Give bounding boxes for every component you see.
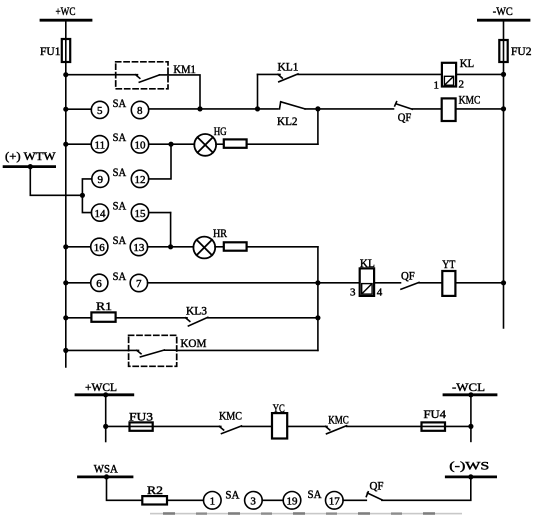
- resistor R1: [91, 312, 115, 321]
- wire KL1 branch riser: [257, 74, 259, 109]
- fuse FU2: [499, 40, 507, 62]
- svg-text:-WCL: -WCL: [452, 380, 485, 394]
- wire QF to KMC coil: [412, 108, 441, 110]
- label SA bottom 1: [225, 488, 239, 502]
- junction dot KM1 drop on row A: [197, 106, 202, 111]
- wire row B to SA contact 11: [66, 143, 91, 145]
- wire KM1 output to row A: [168, 75, 200, 109]
- label KMC: [459, 93, 481, 107]
- svg-text:4: 4: [377, 286, 383, 298]
- node WTW terminal bar: [4, 165, 55, 168]
- junction dot row A on right bus: [501, 106, 506, 111]
- label KMC aux 2: [328, 413, 349, 427]
- fuse FU1: [62, 39, 70, 62]
- SA terminal circle 13: [130, 238, 147, 255]
- wire row A middle: [149, 108, 278, 110]
- label R2: [147, 483, 163, 497]
- svg-text:9: 9: [98, 174, 104, 186]
- SA terminal circle 16: [91, 238, 108, 255]
- wire row F to SA contact 6: [66, 282, 91, 284]
- wire right bus vertical: [503, 20, 505, 328]
- contactor KM1 dashed box: [116, 62, 168, 89]
- svg-text:11: 11: [95, 139, 106, 151]
- svg-text:5: 5: [97, 105, 103, 117]
- wire YT to right bus: [455, 282, 503, 284]
- SA terminal circle 7: [130, 274, 147, 291]
- wire YC row to FU3: [106, 425, 130, 427]
- svg-text:8: 8: [137, 105, 143, 117]
- svg-text:+WC: +WC: [56, 4, 76, 18]
- label R1: [96, 299, 112, 313]
- node +WCL terminal bar: [76, 393, 133, 396]
- junction dot WTW feed on link C-D: [80, 193, 85, 198]
- svg-text:KL3: KL3: [186, 304, 207, 318]
- label KOM: [180, 336, 206, 350]
- label SA row C: [113, 165, 127, 179]
- junction dot riser on row F: [315, 280, 320, 285]
- wire FU4 to -WCL drop: [445, 425, 471, 427]
- wire R1 to KL3: [116, 317, 187, 319]
- wire link row C to row D: [82, 179, 91, 213]
- label FU4: [424, 407, 447, 421]
- junction dot -WCL on YC row: [468, 424, 473, 429]
- SA terminal circle 8: [131, 101, 148, 118]
- contact KMC aux 1: [219, 426, 241, 434]
- contact KOM: [129, 350, 177, 357]
- svg-text:KL1: KL1: [278, 60, 299, 74]
- fuse FU3: [130, 422, 153, 430]
- label KL2: [277, 114, 298, 128]
- svg-text:KMC: KMC: [328, 413, 349, 427]
- SA terminal circle 10: [131, 136, 148, 153]
- contact KM1: [116, 75, 168, 83]
- SA terminal circle 9: [92, 170, 109, 187]
- junction dot HG branch on row A: [315, 106, 320, 111]
- junction dot WSA bar: [104, 474, 109, 479]
- wire KL2 to QF: [305, 108, 394, 110]
- wire left bus vertical: [65, 20, 67, 367]
- wire to KM1 box: [66, 74, 116, 76]
- label KL1: [278, 60, 299, 74]
- svg-text:WSA: WSA: [94, 461, 118, 475]
- wire KL3 to riser: [208, 317, 318, 319]
- node -WC label: [493, 4, 513, 18]
- wire link row B to row C: [149, 144, 171, 179]
- svg-text:2: 2: [459, 79, 465, 91]
- node -WC terminal bar: [478, 19, 529, 22]
- junction dot WTW bar: [28, 164, 33, 169]
- node (+) WTW label: [5, 149, 56, 163]
- wire circle 15 to link: [149, 212, 171, 214]
- junction dot +WCL bar: [103, 392, 108, 397]
- junction dot row E on left bus: [63, 244, 68, 249]
- svg-text:QF: QF: [401, 269, 415, 283]
- wire circle 3 to circle 19: [262, 499, 283, 501]
- SA terminal circle 17: [326, 492, 344, 510]
- wire KL1 to relay KL: [298, 73, 442, 75]
- svg-text:FU2: FU2: [511, 44, 532, 58]
- label SA bottom 2: [308, 487, 322, 501]
- junction dot WS bar: [468, 474, 473, 479]
- wire WTW feed: [30, 167, 82, 196]
- wire -WCL drop: [470, 395, 472, 442]
- svg-text:FU3: FU3: [129, 410, 153, 424]
- wire YC to KMC aux 2: [287, 425, 327, 427]
- svg-text:SA: SA: [113, 96, 127, 110]
- relay contact box KL (pins 3-4): [360, 268, 374, 296]
- wire row H to KOM box: [66, 349, 129, 351]
- node +WCL label: [85, 380, 117, 394]
- junction dot row F on right bus: [501, 280, 506, 285]
- label KMC aux 1: [219, 409, 242, 423]
- svg-text:YT: YT: [442, 257, 456, 271]
- svg-text:(+) WTW: (+) WTW: [5, 149, 56, 163]
- svg-text:(-)WS: (-)WS: [449, 459, 489, 473]
- svg-text:KL2: KL2: [277, 114, 298, 128]
- svg-text:YC: YC: [273, 401, 285, 415]
- junction dot -WCL bar: [468, 392, 473, 397]
- svg-text:16: 16: [94, 242, 106, 254]
- wire circle 10 to lamp HG: [149, 143, 195, 145]
- svg-text:R1: R1: [96, 299, 112, 313]
- wire KMC coil to right bus: [456, 108, 504, 110]
- junction dot +WCL on YC row: [103, 424, 108, 429]
- lamp HG: [194, 134, 216, 156]
- SA terminal circle 15: [131, 204, 148, 221]
- svg-text:19: 19: [287, 496, 299, 508]
- resistor row E: [224, 242, 247, 250]
- label KL3: [186, 304, 207, 318]
- svg-text:+WCL: +WCL: [85, 380, 117, 394]
- wire WSA drop to bottom row: [107, 477, 143, 500]
- svg-text:SA: SA: [113, 165, 127, 179]
- SA terminal circle 5: [91, 101, 108, 118]
- wire FU3 to KMC aux 1: [153, 425, 221, 427]
- label SA row B: [113, 130, 127, 144]
- wire KL to QF row F: [374, 282, 400, 284]
- junction dot row B link: [168, 142, 173, 147]
- node (-) WS label: [449, 459, 489, 473]
- junction dot KL row on right bus: [501, 72, 506, 77]
- SA terminal circle 3: [245, 492, 263, 510]
- pin 3: [350, 287, 356, 299]
- wire KMC aux 2 to FU4: [347, 425, 422, 427]
- contact QF row F: [401, 282, 419, 289]
- contact KL3: [186, 317, 208, 326]
- svg-text:6: 6: [96, 278, 102, 290]
- resistor R2: [142, 496, 167, 504]
- wire lamp HR to resistor: [215, 246, 224, 248]
- resistor row B: [224, 139, 247, 147]
- contact KL2: [280, 102, 306, 109]
- SA terminal circle 12: [131, 170, 148, 187]
- wire KL1 row left: [258, 73, 281, 75]
- svg-text:SA: SA: [113, 199, 127, 213]
- wire lamp HG to resistor: [216, 143, 224, 145]
- node WSA terminal bar: [79, 475, 133, 478]
- contactor coil KMC: [442, 98, 456, 121]
- svg-text:FU4: FU4: [424, 407, 447, 421]
- pin 1: [434, 79, 440, 91]
- contact KMC aux 2: [326, 426, 347, 434]
- junction dot row F on left bus: [63, 280, 68, 285]
- svg-text:3: 3: [250, 496, 256, 508]
- wire riser row B to row A: [317, 109, 319, 144]
- svg-text:FU1: FU1: [40, 44, 61, 58]
- node WSA label: [94, 461, 118, 475]
- svg-text:SA: SA: [113, 233, 127, 247]
- SA terminal circle 14: [91, 204, 108, 221]
- label YT: [442, 257, 456, 271]
- contact QF bottom: [366, 492, 382, 500]
- wire circle 13 to lamp HR: [148, 246, 194, 248]
- wire link row D to row E: [170, 213, 172, 247]
- label QF row A: [398, 110, 412, 124]
- wire row B to riser: [247, 143, 318, 145]
- svg-text:KMC: KMC: [219, 409, 242, 423]
- node +WC label: [56, 4, 76, 18]
- svg-text:14: 14: [95, 208, 107, 220]
- node -WCL terminal bar: [444, 393, 496, 396]
- svg-text:KL: KL: [360, 256, 375, 270]
- coil YC: [272, 413, 287, 438]
- wire KL coil to right bus: [456, 73, 503, 75]
- svg-text:10: 10: [135, 140, 147, 152]
- svg-text:SA: SA: [113, 269, 127, 283]
- svg-text:SA: SA: [308, 487, 322, 501]
- label SA row F: [113, 269, 127, 283]
- label KL: [460, 56, 475, 70]
- svg-text:QF: QF: [398, 110, 412, 124]
- junction dot row A on left bus: [63, 107, 68, 112]
- release coil YT: [442, 271, 455, 296]
- SA terminal circle 19: [283, 492, 301, 510]
- pin 4: [377, 286, 383, 298]
- svg-text:13: 13: [133, 242, 145, 254]
- caption fragment (cut-off text at bottom): [150, 512, 462, 515]
- label SA row E: [113, 233, 127, 247]
- wire R2 to SA contact 1: [167, 499, 203, 501]
- svg-text:-WC: -WC: [493, 4, 513, 18]
- svg-text:15: 15: [135, 208, 147, 220]
- svg-text:SA: SA: [113, 130, 127, 144]
- node WS terminal bar: [446, 475, 495, 478]
- label YC: [273, 401, 285, 415]
- wire row H to riser corner: [177, 349, 318, 351]
- svg-text:1: 1: [210, 496, 216, 508]
- junction dot row H on left bus: [63, 348, 68, 353]
- svg-text:KMC: KMC: [459, 93, 481, 107]
- label FU1: [40, 44, 61, 58]
- svg-text:SA: SA: [225, 488, 239, 502]
- svg-text:3: 3: [350, 287, 356, 299]
- pin 2: [459, 79, 465, 91]
- relay coil KL (pins 1-2): [442, 63, 456, 87]
- wire QF to YT: [419, 282, 442, 284]
- fuse FU4: [422, 422, 446, 430]
- wire row G to R1: [66, 317, 92, 319]
- svg-text:R2: R2: [147, 483, 163, 497]
- label FU2: [511, 44, 532, 58]
- junction dot KL1 riser on row A: [255, 106, 260, 111]
- junction dot link on row E: [168, 244, 173, 249]
- svg-text:HR: HR: [213, 226, 227, 240]
- svg-text:1: 1: [434, 79, 440, 91]
- wire row A to SA contact 5: [66, 108, 92, 110]
- wire row F to relay KL 3-4: [148, 282, 360, 284]
- label HR: [213, 226, 227, 240]
- wire KMC aux 1 to YC: [242, 425, 273, 427]
- wire row E to SA contact 16: [66, 246, 91, 248]
- lamp HR: [193, 237, 215, 259]
- node -WCL label: [452, 380, 485, 394]
- junction dot riser on row G: [315, 315, 320, 320]
- wire QF to WS drop: [382, 477, 471, 500]
- svg-text:KL: KL: [460, 56, 475, 70]
- svg-text:7: 7: [136, 278, 142, 290]
- contact QF row A: [395, 102, 413, 110]
- label QF row F: [401, 269, 415, 283]
- SA terminal circle 1: [204, 492, 222, 510]
- wire circle 17 to QF: [343, 499, 366, 501]
- label KM1: [173, 62, 196, 76]
- relay KOM dashed box: [129, 335, 177, 366]
- SA terminal circle 11: [91, 136, 108, 153]
- label FU3: [129, 410, 153, 424]
- SA terminal circle 6: [91, 274, 108, 291]
- wire row E to riser: [247, 246, 318, 248]
- contact KL1: [278, 74, 298, 82]
- svg-text:HG: HG: [214, 124, 227, 138]
- label SA row A: [113, 96, 127, 110]
- label KL 3-4: [360, 256, 375, 270]
- svg-text:QF: QF: [370, 479, 384, 493]
- svg-text:17: 17: [329, 496, 341, 508]
- svg-text:KM1: KM1: [173, 62, 196, 76]
- junction dot row B on left bus: [63, 142, 68, 147]
- wire riser rows E-H: [317, 247, 319, 351]
- label QF bottom: [370, 479, 384, 493]
- junction dot on left bus at KM1 branch: [63, 72, 68, 77]
- node +WC terminal bar: [41, 19, 91, 22]
- label SA row D: [113, 199, 127, 213]
- svg-text:KOM: KOM: [180, 336, 206, 350]
- label HG: [214, 124, 227, 138]
- wire +WCL drop: [105, 395, 107, 442]
- svg-text:12: 12: [135, 174, 146, 186]
- junction dot row G on left bus: [63, 315, 68, 320]
